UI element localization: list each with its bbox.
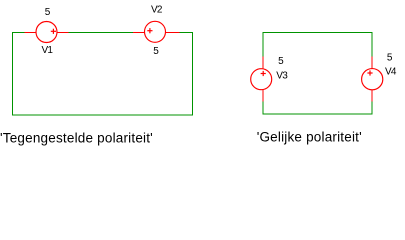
wire: left circuit top-left segment <box>12 32 25 34</box>
wire: right circuit right edge upper segment <box>371 32 373 57</box>
svg-text:5: 5 <box>278 56 284 67</box>
wire: left circuit top middle segment between V1 and V2 <box>69 32 134 34</box>
voltage source V1 <box>25 22 69 43</box>
wire: right circuit right edge lower segment <box>371 102 373 115</box>
wire: left circuit left edge <box>12 32 14 116</box>
wire: left circuit top-right segment <box>180 32 193 34</box>
svg-text:V1: V1 <box>42 45 54 56</box>
wire: right circuit left edge lower segment <box>262 102 264 115</box>
wire: right circuit bottom edge <box>263 113 373 115</box>
wire: left circuit bottom edge <box>12 114 193 116</box>
svg-text:5: 5 <box>387 53 393 64</box>
voltage source V4 <box>362 57 383 102</box>
svg-text:'Tegengestelde polariteit': 'Tegengestelde polariteit' <box>0 130 153 145</box>
wire: right circuit left edge upper segment <box>262 32 264 57</box>
voltage source V2 <box>133 21 180 42</box>
svg-text:V4: V4 <box>385 66 397 77</box>
svg-text:5: 5 <box>45 7 51 18</box>
svg-text:5: 5 <box>153 46 159 57</box>
voltage source V3 <box>251 57 272 102</box>
svg-text:V3: V3 <box>276 70 288 81</box>
wire: left circuit right edge <box>192 32 194 116</box>
svg-text:V2: V2 <box>151 4 163 15</box>
svg-text:'Gelijke polariteit': 'Gelijke polariteit' <box>257 130 362 145</box>
wire: right circuit top edge <box>263 32 373 34</box>
